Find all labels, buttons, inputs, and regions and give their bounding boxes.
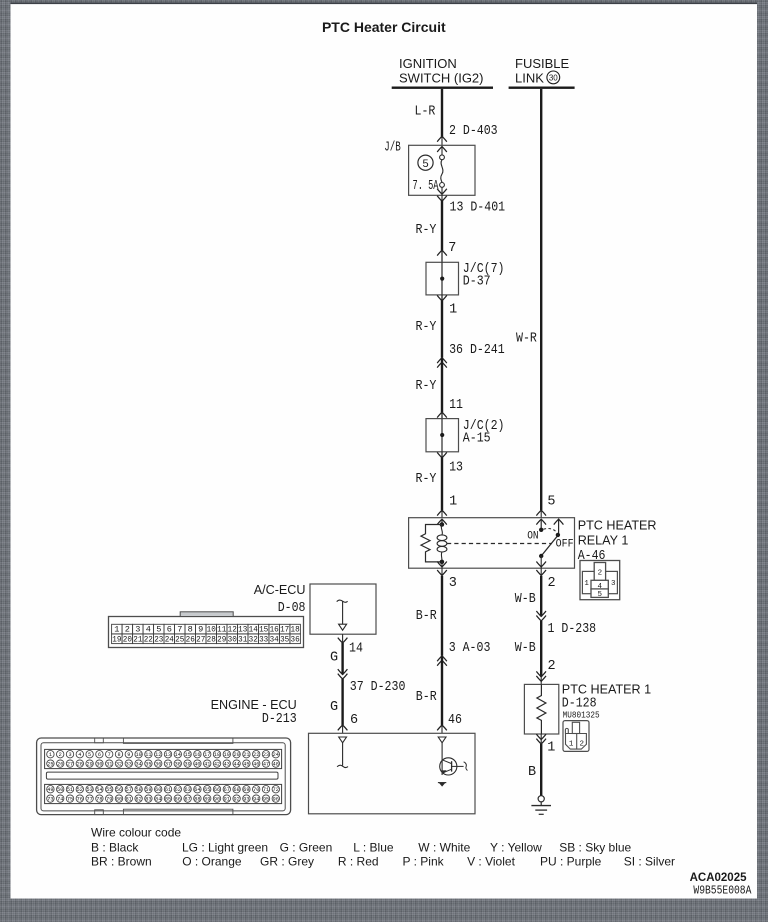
svg-text:SI : Silver: SI : Silver bbox=[624, 854, 675, 868]
svg-text:18: 18 bbox=[214, 752, 220, 758]
legend: wire colour code bbox=[91, 826, 675, 869]
svg-text:42: 42 bbox=[214, 762, 220, 768]
svg-text:61: 61 bbox=[165, 787, 171, 793]
svg-text:36: 36 bbox=[155, 762, 161, 768]
relay common contact dot bbox=[539, 554, 543, 558]
svg-text:16: 16 bbox=[194, 752, 200, 758]
svg-text:4: 4 bbox=[78, 752, 81, 758]
svg-text:36: 36 bbox=[291, 634, 300, 644]
svg-text:18: 18 bbox=[291, 625, 300, 635]
svg-text:46: 46 bbox=[253, 762, 259, 768]
svg-text:38: 38 bbox=[175, 762, 181, 768]
svg-text:29: 29 bbox=[86, 762, 92, 768]
svg-text:43: 43 bbox=[224, 762, 230, 768]
svg-text:2: 2 bbox=[548, 659, 556, 674]
svg-text:1: 1 bbox=[547, 740, 555, 755]
chevron relay pin3 inside bbox=[437, 562, 447, 567]
svg-text:76: 76 bbox=[77, 797, 83, 803]
svg-text:LINK: LINK bbox=[515, 71, 544, 86]
chevron on OFF stub bbox=[554, 519, 564, 524]
svg-text:IGNITION: IGNITION bbox=[399, 56, 457, 71]
svg-text:39: 39 bbox=[184, 762, 190, 768]
svg-text:64: 64 bbox=[194, 787, 200, 793]
engine ECU input symbol (arrow to bar), pin 6 bbox=[337, 737, 348, 768]
power source FUSIBLE LINK 30 bbox=[509, 56, 575, 89]
svg-text:34: 34 bbox=[135, 762, 141, 768]
svg-text:W-R: W-R bbox=[516, 331, 537, 346]
svg-text:79: 79 bbox=[106, 797, 112, 803]
svg-text:78: 78 bbox=[96, 797, 102, 803]
svg-text:4: 4 bbox=[597, 583, 602, 591]
svg-text:2: 2 bbox=[548, 576, 556, 591]
svg-text:G : Green: G : Green bbox=[280, 840, 333, 854]
svg-text:73: 73 bbox=[47, 797, 53, 803]
junction block J/B box bbox=[409, 145, 475, 195]
svg-text:5: 5 bbox=[156, 625, 161, 635]
svg-text:16: 16 bbox=[270, 625, 279, 635]
svg-text:O : Orange: O : Orange bbox=[182, 854, 242, 868]
connector face view D-213 (engine ECU, 96 pin) bbox=[37, 738, 291, 815]
wire B-R from A-03 to engine ECU pin 46 bbox=[441, 656, 443, 725]
svg-text:13: 13 bbox=[238, 625, 247, 635]
chevron into engine ECU pin 6 bbox=[338, 725, 348, 730]
svg-text:6: 6 bbox=[167, 625, 172, 635]
svg-text:B: B bbox=[528, 765, 536, 780]
svg-text:22: 22 bbox=[253, 752, 259, 758]
svg-text:9: 9 bbox=[198, 625, 203, 635]
svg-text:74: 74 bbox=[57, 797, 63, 803]
svg-text:2: 2 bbox=[579, 740, 584, 748]
svg-text:20: 20 bbox=[123, 634, 132, 644]
svg-text:BR : Brown: BR : Brown bbox=[91, 854, 152, 868]
relay resistor (parallel with coil) bbox=[421, 525, 442, 562]
svg-text:RELAY 1: RELAY 1 bbox=[578, 533, 629, 547]
J/C(7) internal node dot bbox=[441, 262, 443, 295]
svg-text:13: 13 bbox=[165, 752, 171, 758]
wire G from D-230 to engine ECU pin 6 bbox=[341, 679, 343, 725]
wire B from PTC heater to ground bbox=[540, 734, 542, 744]
svg-text:86: 86 bbox=[175, 797, 181, 803]
svg-text:94: 94 bbox=[253, 797, 259, 803]
svg-text:3: 3 bbox=[135, 625, 140, 635]
svg-text:21: 21 bbox=[133, 634, 142, 644]
joint connector J/C(2) box bbox=[426, 419, 459, 452]
svg-text:91: 91 bbox=[224, 797, 230, 803]
svg-text:15: 15 bbox=[184, 752, 190, 758]
svg-text:25: 25 bbox=[47, 762, 53, 768]
svg-text:69: 69 bbox=[243, 787, 249, 793]
svg-text:14: 14 bbox=[249, 625, 258, 635]
svg-text:66: 66 bbox=[214, 787, 220, 793]
svg-text:B : Black: B : Black bbox=[91, 840, 139, 854]
svg-text:1: 1 bbox=[449, 494, 457, 509]
svg-text:22: 22 bbox=[144, 634, 153, 644]
chevron out of PTC heater (double) bbox=[536, 734, 546, 739]
wire thin lead into J/B bbox=[441, 137, 443, 155]
svg-text:7. 5A: 7. 5A bbox=[413, 179, 440, 194]
wire R-Y from J/C(7) to connector D-241 bbox=[441, 300, 443, 357]
svg-text:71: 71 bbox=[263, 787, 269, 793]
svg-text:L-R: L-R bbox=[415, 105, 436, 120]
relay wire pin5 to ON contact bbox=[540, 519, 542, 530]
svg-text:58: 58 bbox=[135, 787, 141, 793]
relay node dot bottom bbox=[440, 560, 445, 565]
svg-text:95: 95 bbox=[263, 797, 269, 803]
svg-text:2 D-403: 2 D-403 bbox=[449, 124, 498, 139]
svg-text:13: 13 bbox=[449, 460, 463, 475]
svg-text:83: 83 bbox=[145, 797, 151, 803]
svg-text:10: 10 bbox=[135, 752, 141, 758]
svg-text:48: 48 bbox=[273, 762, 279, 768]
svg-text:20: 20 bbox=[233, 752, 239, 758]
svg-text:31: 31 bbox=[106, 762, 112, 768]
svg-text:90: 90 bbox=[214, 797, 220, 803]
svg-text:56: 56 bbox=[116, 787, 122, 793]
svg-text:Wire colour code: Wire colour code bbox=[91, 826, 181, 840]
svg-text:75: 75 bbox=[67, 797, 73, 803]
svg-text:33: 33 bbox=[259, 634, 268, 644]
svg-text:14: 14 bbox=[349, 641, 363, 656]
wire L-R from ignition switch to J/B fuse 5 bbox=[441, 89, 443, 138]
svg-text:31: 31 bbox=[238, 634, 247, 644]
svg-text:17: 17 bbox=[280, 625, 289, 635]
in-line connector D-238 double chevron bbox=[536, 611, 546, 616]
svg-text:W-B: W-B bbox=[515, 641, 536, 656]
svg-text:25: 25 bbox=[175, 634, 184, 644]
relay dashed actuation line bbox=[447, 543, 552, 545]
fuse element: terminal circles and wavy link bbox=[440, 155, 445, 187]
svg-text:R-Y: R-Y bbox=[416, 320, 437, 335]
connector face view D-128 bbox=[563, 721, 589, 752]
wire R-Y from J/C(2) to relay pin 1 bbox=[441, 457, 443, 510]
svg-text:45: 45 bbox=[243, 762, 249, 768]
svg-text:28: 28 bbox=[77, 762, 83, 768]
svg-text:2: 2 bbox=[125, 625, 130, 635]
wire W-B relay pin2 down bbox=[540, 576, 542, 616]
svg-text:26: 26 bbox=[57, 762, 63, 768]
svg-text:6: 6 bbox=[98, 752, 101, 758]
svg-text:7: 7 bbox=[108, 752, 111, 758]
svg-text:5: 5 bbox=[422, 159, 429, 171]
svg-text:92: 92 bbox=[233, 797, 239, 803]
svg-text:PU : Purple: PU : Purple bbox=[540, 854, 602, 868]
svg-text:1: 1 bbox=[449, 302, 457, 317]
svg-text:ACA02025: ACA02025 bbox=[690, 872, 747, 884]
svg-text:8: 8 bbox=[117, 752, 120, 758]
svg-text:32: 32 bbox=[116, 762, 122, 768]
svg-text:11: 11 bbox=[145, 752, 151, 758]
svg-text:ENGINE - ECU: ENGINE - ECU bbox=[211, 698, 297, 712]
svg-text:6: 6 bbox=[350, 713, 358, 728]
svg-text:1: 1 bbox=[584, 580, 589, 588]
svg-text:W-B: W-B bbox=[515, 592, 536, 607]
svg-text:7: 7 bbox=[177, 625, 182, 635]
relay PTC HEATER RELAY 1 box A-46 bbox=[409, 518, 575, 569]
svg-text:FUSIBLE: FUSIBLE bbox=[515, 56, 570, 71]
wire R-Y from J/B to J/C(7) bbox=[441, 201, 443, 251]
svg-text:10: 10 bbox=[207, 625, 216, 635]
joint connector J/C(7) box bbox=[426, 262, 459, 295]
svg-text:44: 44 bbox=[233, 762, 239, 768]
connector chevron into J/B (outside) bbox=[437, 136, 447, 141]
in-line connector A-03 double chevron bbox=[437, 656, 447, 661]
svg-text:93: 93 bbox=[243, 797, 249, 803]
connector face view A-46 bbox=[580, 561, 620, 600]
svg-text:47: 47 bbox=[263, 762, 269, 768]
svg-text:49: 49 bbox=[47, 787, 53, 793]
power source IGNITION SWITCH (IG2) bbox=[392, 56, 493, 89]
svg-text:14: 14 bbox=[175, 752, 181, 758]
svg-text:19: 19 bbox=[112, 634, 121, 644]
svg-text:J/B: J/B bbox=[384, 141, 401, 156]
svg-text:9: 9 bbox=[127, 752, 130, 758]
svg-text:27: 27 bbox=[196, 634, 205, 644]
svg-text:5: 5 bbox=[547, 494, 555, 509]
chevron relay pin5 inside bbox=[536, 519, 546, 524]
svg-text:B-R: B-R bbox=[416, 690, 437, 705]
svg-text:A-15: A-15 bbox=[463, 432, 491, 447]
fuse 5 circled number bbox=[418, 155, 433, 170]
svg-text:35: 35 bbox=[280, 634, 289, 644]
svg-text:62: 62 bbox=[175, 787, 181, 793]
svg-text:87: 87 bbox=[184, 797, 190, 803]
relay switch lever bbox=[541, 537, 557, 557]
ECU ENGINE - ECU box D-213 bbox=[309, 733, 476, 814]
svg-text:11: 11 bbox=[449, 398, 463, 413]
relay coil branch wire pin1 to pin3 bbox=[441, 519, 443, 524]
svg-text:30: 30 bbox=[96, 762, 102, 768]
svg-text:R-Y: R-Y bbox=[416, 223, 437, 238]
chevron into J/C(7) bbox=[437, 250, 447, 255]
chevron into relay pin 1 bbox=[437, 510, 447, 515]
ECU A/C-ECU box D-08 bbox=[310, 584, 376, 634]
svg-text:55: 55 bbox=[106, 787, 112, 793]
svg-text:23: 23 bbox=[154, 634, 163, 644]
connector chevron out of J/B (inside) bbox=[437, 189, 447, 194]
svg-text:65: 65 bbox=[204, 787, 210, 793]
svg-text:85: 85 bbox=[165, 797, 171, 803]
wire B-R relay pin3 down bbox=[441, 576, 443, 656]
svg-text:35: 35 bbox=[145, 762, 151, 768]
svg-text:24: 24 bbox=[165, 634, 174, 644]
svg-text:R-Y: R-Y bbox=[416, 379, 437, 394]
svg-text:D-213: D-213 bbox=[262, 712, 297, 727]
dashed movement arc ON to OFF bbox=[544, 528, 558, 532]
svg-text:46: 46 bbox=[448, 713, 462, 728]
svg-text:W9B55E008A: W9B55E008A bbox=[693, 883, 752, 897]
chevron relay pin3 outside bbox=[437, 570, 447, 575]
svg-text:13 D-401: 13 D-401 bbox=[450, 201, 506, 216]
svg-text:37: 37 bbox=[165, 762, 171, 768]
chevron relay pin2 outside bbox=[536, 570, 546, 575]
svg-text:57: 57 bbox=[126, 787, 132, 793]
svg-text:2: 2 bbox=[59, 752, 62, 758]
svg-text:D-08: D-08 bbox=[278, 601, 306, 616]
svg-text:PTC HEATER 1: PTC HEATER 1 bbox=[562, 682, 651, 696]
svg-text:MU801325: MU801325 bbox=[563, 711, 600, 721]
svg-text:R : Red: R : Red bbox=[338, 854, 379, 868]
svg-text:3 A-03: 3 A-03 bbox=[449, 641, 491, 656]
engine ECU transistor driver symbol, pin 46 bbox=[438, 737, 468, 787]
connector face view D-08 (36 pin) bbox=[109, 612, 304, 648]
J/C(2) internal node dot bbox=[441, 419, 443, 452]
svg-text:8: 8 bbox=[188, 625, 193, 635]
svg-text:19: 19 bbox=[224, 752, 230, 758]
svg-text:17: 17 bbox=[204, 752, 210, 758]
svg-text:A/C-ECU: A/C-ECU bbox=[254, 583, 306, 597]
chevron out of A/C-ECU pin 14 bbox=[342, 634, 344, 643]
svg-text:24: 24 bbox=[273, 752, 279, 758]
svg-text:A-46: A-46 bbox=[578, 549, 606, 564]
chevron into J/C(2) bbox=[437, 412, 447, 417]
svg-text:21: 21 bbox=[243, 752, 249, 758]
svg-text:12: 12 bbox=[155, 752, 161, 758]
chevron into relay pin 5 bbox=[536, 510, 546, 515]
svg-text:60: 60 bbox=[155, 787, 161, 793]
relay ON contact dot bbox=[539, 528, 543, 532]
svg-text:54: 54 bbox=[96, 787, 102, 793]
svg-text:D-128: D-128 bbox=[562, 697, 597, 712]
svg-text:72: 72 bbox=[273, 787, 279, 793]
svg-text:3: 3 bbox=[68, 752, 71, 758]
svg-text:P : Pink: P : Pink bbox=[403, 854, 445, 868]
svg-text:30: 30 bbox=[228, 634, 237, 644]
connector chevron into J/B (inside) bbox=[437, 147, 447, 152]
ground (chassis) bbox=[531, 796, 551, 815]
chevron relay pin1 inside bbox=[437, 519, 447, 524]
svg-text:G: G bbox=[330, 650, 338, 665]
svg-text:SB : Sky blue: SB : Sky blue bbox=[559, 840, 631, 854]
svg-text:89: 89 bbox=[204, 797, 210, 803]
svg-text:B-R: B-R bbox=[416, 609, 437, 624]
svg-text:4: 4 bbox=[146, 625, 151, 635]
chevron relay pin2 inside bbox=[536, 562, 546, 567]
svg-text:ON: ON bbox=[527, 530, 538, 542]
svg-text:3: 3 bbox=[611, 580, 616, 588]
A/C-ECU internal output symbol (bar and arrow) bbox=[337, 600, 348, 630]
chevron into PTC heater (double) bbox=[536, 671, 546, 676]
svg-text:G: G bbox=[330, 700, 338, 715]
svg-text:36 D-241: 36 D-241 bbox=[449, 343, 505, 358]
relay OFF stub from top border bbox=[558, 519, 560, 535]
svg-text:26: 26 bbox=[186, 634, 195, 644]
svg-text:OFF: OFF bbox=[556, 538, 574, 550]
svg-text:1: 1 bbox=[114, 625, 119, 635]
svg-text:5: 5 bbox=[88, 752, 91, 758]
svg-text:L : Blue: L : Blue bbox=[353, 840, 394, 854]
svg-text:68: 68 bbox=[233, 787, 239, 793]
internal ground of transistor bbox=[439, 783, 446, 787]
svg-text:77: 77 bbox=[86, 797, 92, 803]
svg-text:32: 32 bbox=[249, 634, 258, 644]
connector chevron out of J/B (outside) bbox=[437, 196, 447, 201]
PTC heater resistor element bbox=[537, 684, 546, 734]
svg-text:SWITCH (IG2): SWITCH (IG2) bbox=[399, 71, 484, 86]
svg-text:30: 30 bbox=[549, 73, 558, 82]
svg-text:1: 1 bbox=[569, 740, 574, 748]
svg-text:12: 12 bbox=[228, 625, 237, 635]
svg-text:33: 33 bbox=[126, 762, 132, 768]
svg-text:R-Y: R-Y bbox=[416, 472, 437, 487]
wire R-Y from D-241 to J/C(2) bbox=[441, 358, 443, 412]
chevron out of J/C(7) bbox=[437, 295, 447, 300]
relay OFF contact dot bbox=[556, 533, 560, 537]
svg-text:27: 27 bbox=[67, 762, 73, 768]
svg-text:52: 52 bbox=[77, 787, 83, 793]
svg-text:88: 88 bbox=[194, 797, 200, 803]
svg-text:84: 84 bbox=[155, 797, 161, 803]
svg-text:23: 23 bbox=[263, 752, 269, 758]
svg-text:5: 5 bbox=[597, 591, 602, 599]
heater PTC HEATER 1 box D-128 bbox=[524, 684, 558, 734]
svg-text:34: 34 bbox=[270, 634, 279, 644]
svg-text:81: 81 bbox=[126, 797, 132, 803]
svg-text:70: 70 bbox=[253, 787, 259, 793]
svg-text:67: 67 bbox=[224, 787, 230, 793]
svg-text:D-37: D-37 bbox=[463, 275, 491, 290]
svg-text:82: 82 bbox=[135, 797, 141, 803]
svg-text:Y : Yellow: Y : Yellow bbox=[490, 840, 542, 854]
svg-text:7: 7 bbox=[448, 241, 456, 256]
svg-text:28: 28 bbox=[207, 634, 216, 644]
svg-text:51: 51 bbox=[67, 787, 73, 793]
svg-text:40: 40 bbox=[194, 762, 200, 768]
svg-text:2: 2 bbox=[598, 570, 603, 578]
svg-text:1: 1 bbox=[49, 752, 52, 758]
svg-text:11: 11 bbox=[217, 625, 226, 635]
relay node dot top bbox=[440, 522, 445, 527]
svg-text:80: 80 bbox=[116, 797, 122, 803]
in-line connector D-230 double chevron bbox=[338, 669, 348, 674]
svg-text:LG : Light green: LG : Light green bbox=[182, 840, 268, 854]
svg-text:V : Violet: V : Violet bbox=[467, 854, 515, 868]
wire W-B from D-238 to PTC heater bbox=[540, 621, 542, 677]
svg-text:59: 59 bbox=[145, 787, 151, 793]
relay coil bbox=[437, 525, 447, 562]
svg-text:GR : Grey: GR : Grey bbox=[260, 854, 314, 868]
svg-text:1 D-238: 1 D-238 bbox=[548, 622, 597, 637]
svg-text:PTC HEATER: PTC HEATER bbox=[578, 519, 657, 533]
chevron into engine ECU pin 46 bbox=[437, 725, 447, 730]
svg-text:29: 29 bbox=[217, 634, 226, 644]
svg-text:96: 96 bbox=[273, 797, 279, 803]
svg-text:15: 15 bbox=[259, 625, 268, 635]
wire W-R from fusible link to relay pin 5 bbox=[540, 89, 542, 510]
svg-text:63: 63 bbox=[184, 787, 190, 793]
svg-text:41: 41 bbox=[204, 762, 210, 768]
svg-text:50: 50 bbox=[57, 787, 63, 793]
wire G from A/C-ECU to connector D-230 bbox=[341, 643, 343, 674]
svg-text:W : White: W : White bbox=[418, 840, 470, 854]
svg-text:37 D-230: 37 D-230 bbox=[350, 680, 406, 695]
svg-text:53: 53 bbox=[86, 787, 92, 793]
svg-text:PTC Heater Circuit: PTC Heater Circuit bbox=[322, 19, 446, 35]
in-line connector D-241 double chevron bbox=[437, 358, 447, 363]
svg-text:3: 3 bbox=[449, 576, 457, 591]
chevron out of J/C(2) bbox=[437, 452, 447, 457]
